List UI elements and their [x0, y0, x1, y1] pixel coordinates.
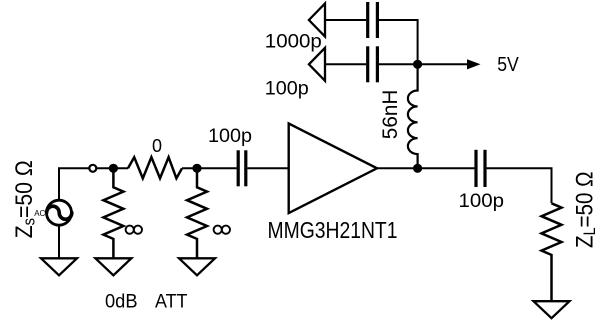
node junction dot A	[109, 164, 118, 173]
svg-text:100p: 100p	[265, 79, 309, 100]
node junction dot B	[192, 164, 201, 173]
capacitor C1 100p (input) plates	[238, 150, 246, 186]
svg-text:0: 0	[152, 136, 162, 156]
svg-text:5V: 5V	[497, 53, 519, 76]
wire C1 to amp	[247, 167, 288, 169]
wire source bottom to ground	[58, 225, 60, 258]
svg-text:ZL=50 Ω: ZL=50 Ω	[572, 172, 599, 249]
wire gnd to C4	[325, 63, 366, 65]
op-amp U1 MMG3H21NT1	[289, 124, 377, 214]
ground (R3)	[179, 258, 215, 275]
inductor L1 56nH	[408, 64, 418, 168]
wire source top to main line	[59, 168, 128, 200]
wire C2 to load corner	[487, 168, 552, 203]
infinity symbol for R2	[126, 226, 142, 234]
svg-text:100p: 100p	[459, 191, 505, 212]
ground (load)	[534, 301, 570, 318]
sideways ground (C4 left)	[309, 48, 325, 81]
resistor R3 (shunt, infinite)	[187, 168, 207, 258]
capacitor C2 100p (output) plates	[476, 150, 485, 187]
5V arrow head	[467, 59, 481, 69]
resistor RL (load)	[542, 203, 562, 301]
capacitor C3 1000p plates	[368, 2, 378, 38]
svg-text:1000p: 1000p	[265, 32, 322, 53]
svg-text:100p: 100p	[208, 126, 252, 147]
resistor R2 (shunt, infinite)	[103, 168, 123, 258]
svg-text:Zs=50 Ω: Zs=50 Ω	[11, 160, 38, 238]
wire gnd to C3	[325, 19, 366, 21]
wire C4 to node D	[379, 63, 418, 65]
svg-text:0dB: 0dB	[105, 290, 138, 312]
svg-text:MMG3H21NT1: MMG3H21NT1	[268, 217, 398, 243]
svg-text:ATT: ATT	[155, 290, 188, 312]
infinity symbol for R3	[214, 226, 230, 234]
sideways ground (C3 left)	[309, 4, 325, 37]
wire R1 to node B	[182, 167, 237, 169]
port open circle node	[89, 165, 96, 172]
voltage source V1 (AC)	[47, 200, 72, 225]
wire 5V arrow shaft	[418, 63, 468, 65]
resistor R1 value 0 (series)	[128, 157, 182, 178]
wire C3 to node D corner	[379, 20, 418, 64]
node junction dot D (5V)	[413, 60, 422, 69]
ground (R2)	[95, 258, 131, 275]
sine wave inside source	[47, 206, 72, 219]
svg-text:56nH: 56nH	[379, 90, 402, 140]
ground (source)	[41, 258, 77, 275]
wire node C to C2	[418, 167, 475, 169]
svg-text:AC: AC	[34, 209, 45, 218]
capacitor C4 100p plates	[368, 46, 378, 82]
wire amp output to node C	[377, 167, 418, 169]
node junction dot C	[413, 164, 422, 173]
